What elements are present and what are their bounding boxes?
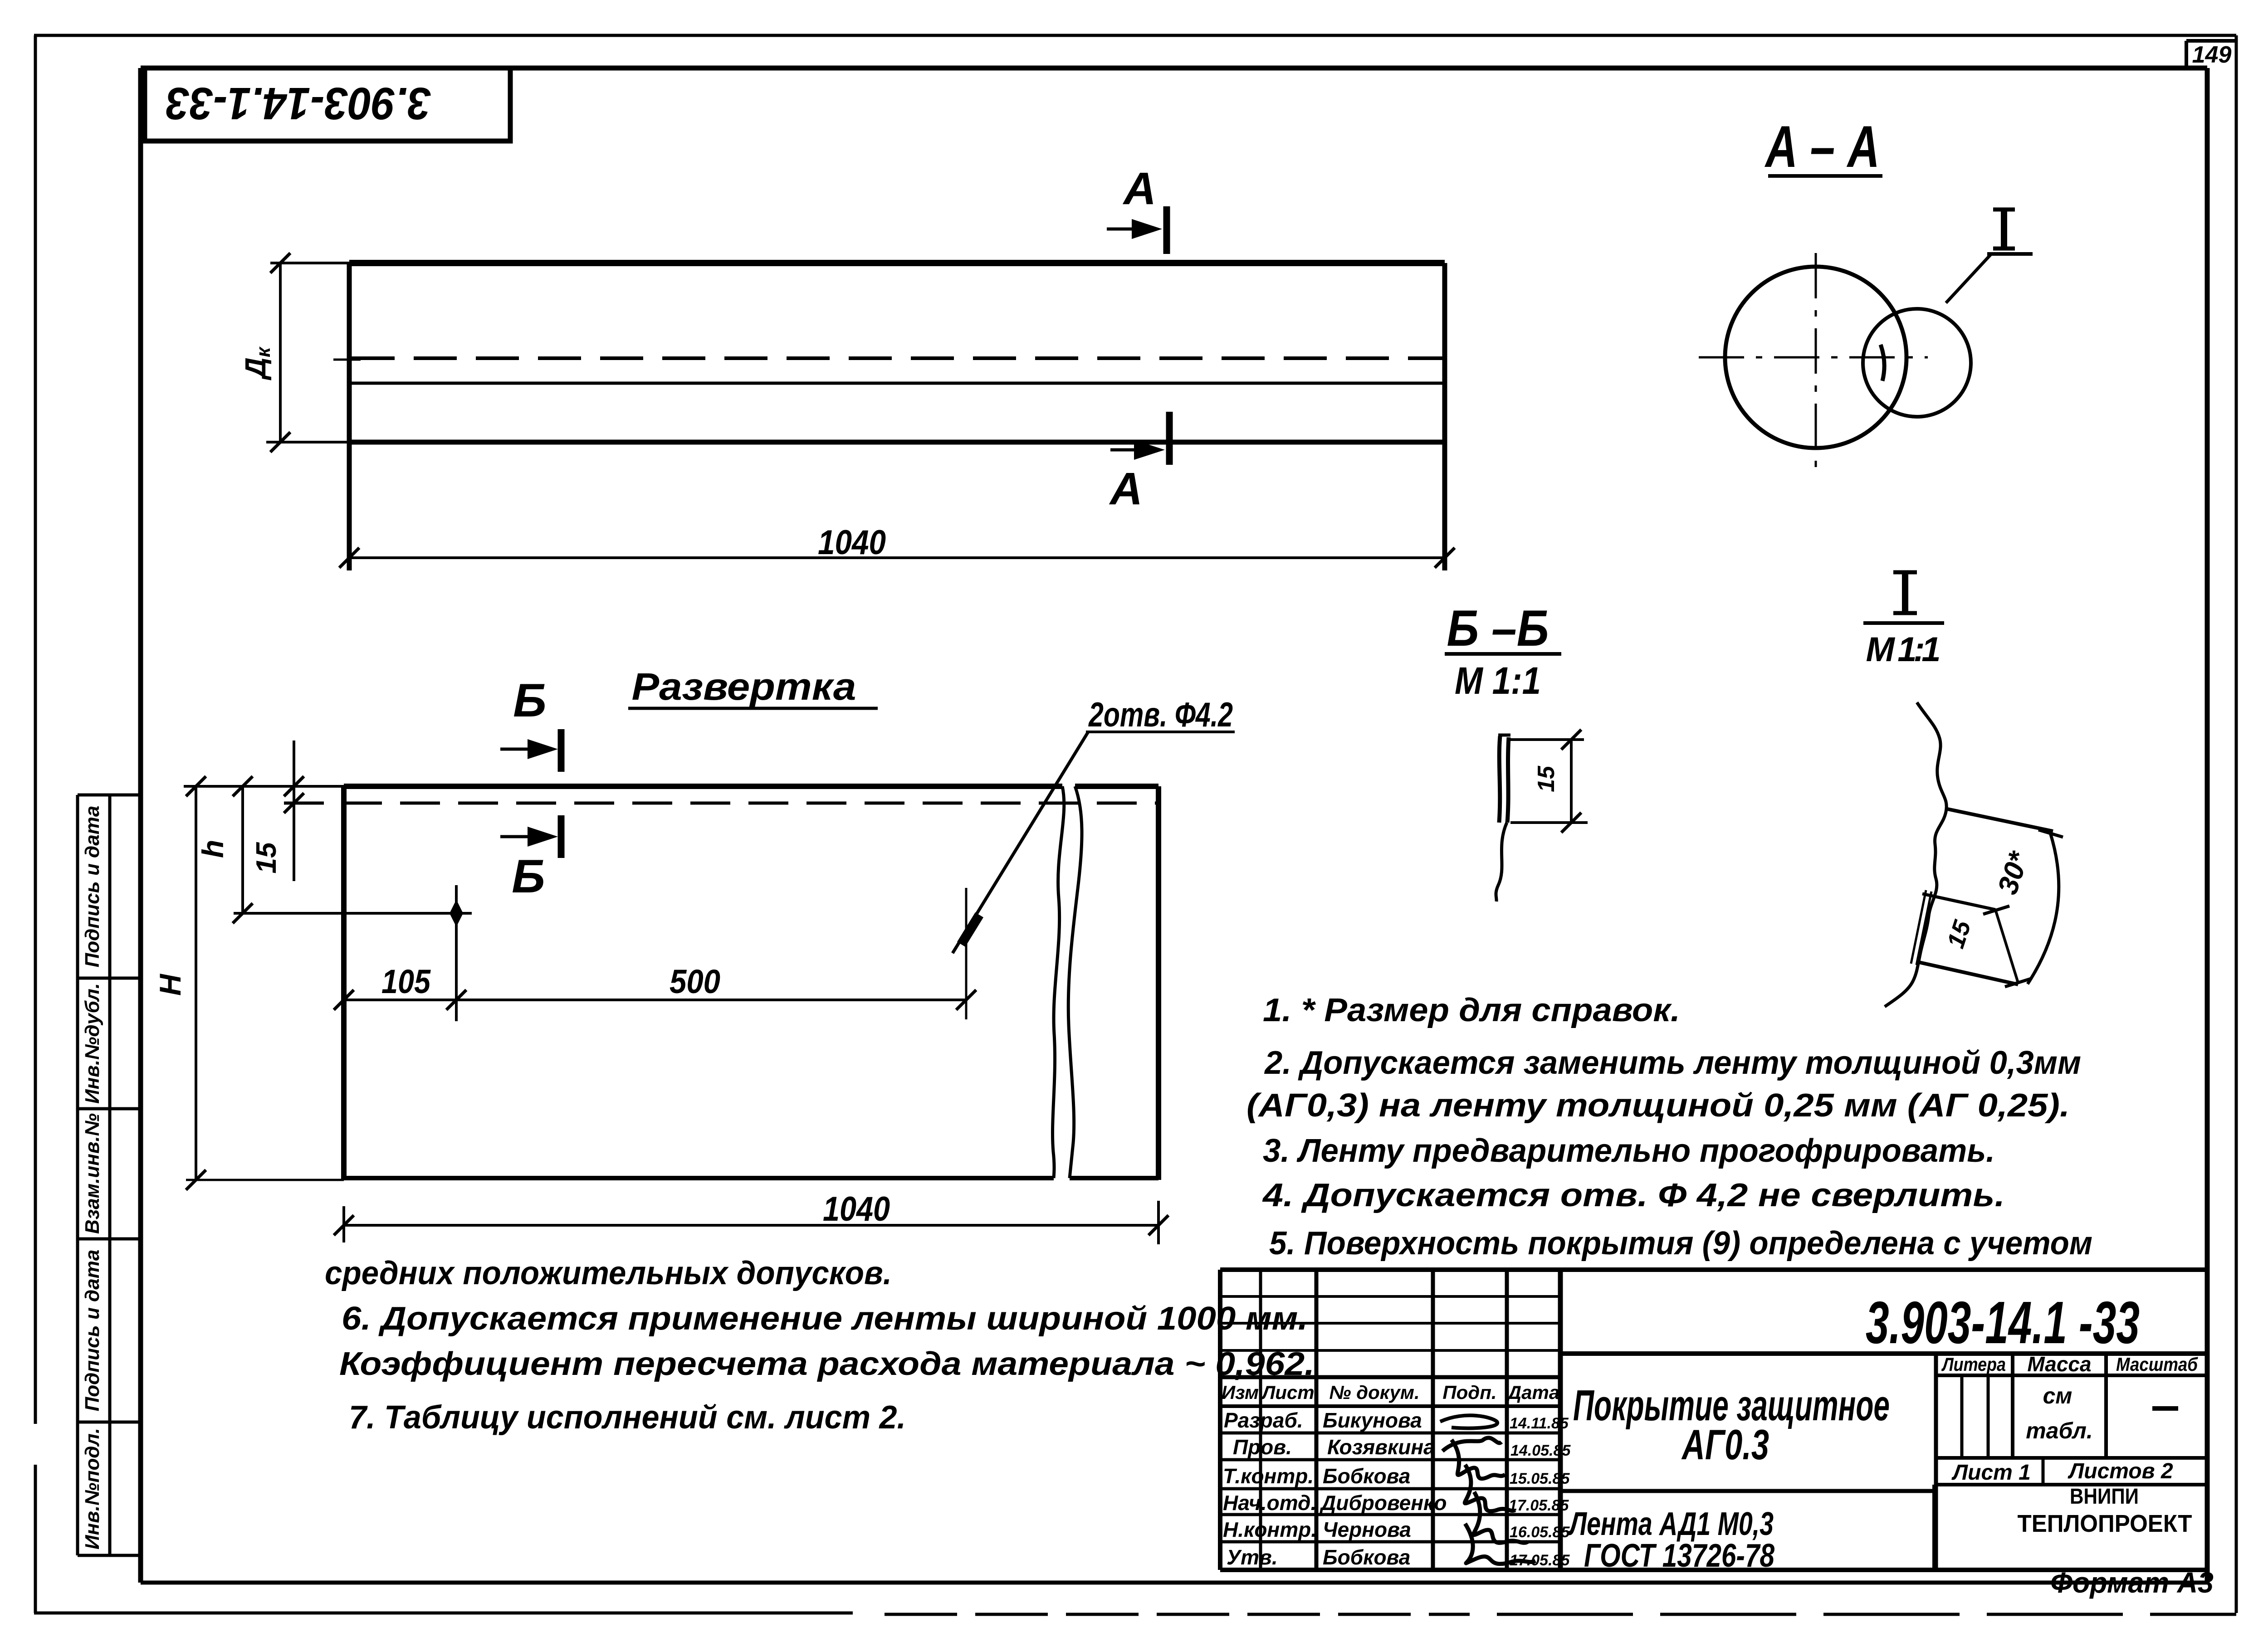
detail I tape top edge [1945,809,2053,831]
razvertka title underline [628,707,878,710]
svg-text:Литера: Литера [1941,1354,2006,1375]
plate thin line [349,382,1445,385]
Litera/Massa/Masshtab header separators [2011,1354,2014,1458]
B-B break tail [1496,823,1507,901]
svg-text:14.05.85: 14.05.85 [1510,1442,1571,1459]
line under designation [1560,1351,2207,1356]
svg-text:АГ0.3: АГ0.3 [1681,1421,1769,1468]
section mark A lower bar [1166,412,1173,465]
svg-text:ТЕПЛОПРОЕКТ: ТЕПЛОПРОЕКТ [2018,1510,2192,1537]
date scribbles [1509,1415,1571,1569]
svg-text:Н.контр.: Н.контр. [1223,1518,1317,1541]
svg-text:Изм: Изм [1222,1382,1259,1403]
svg-text:Лист: Лист [1261,1382,1314,1403]
A-A title underline [1768,174,1882,178]
section mark A upper bar [1163,206,1170,254]
svg-text:4. Допускается отв. Ф 4,2 н: 4. Допускается отв. Ф 4,2 не сверлить. [1262,1177,2005,1213]
section mark A lower arrow [1110,448,1157,452]
Litera header labels [1941,1352,2198,1376]
svg-text:h: h [196,840,230,858]
inner frame right [2205,68,2210,1583]
page number box [2186,41,2236,68]
svg-text:3.903-14.1-33: 3.903-14.1-33 [166,78,431,129]
B-B 15 dim extension top [1510,738,1584,741]
title block vertical 2 [1315,1270,1319,1570]
Litera sub columns [1960,1375,1964,1458]
section mark B upper arrow [500,748,551,751]
2otv underline [1086,731,1235,733]
svg-text:ВНИПИ: ВНИПИ [2070,1485,2139,1509]
svg-text:ГОСТ 13726-78: ГОСТ 13726-78 [1584,1538,1774,1574]
hole 1 vertical extension line [455,885,458,1021]
svg-text:Взам.инв.№: Взам.инв.№ [81,1113,103,1234]
title block signature rows [1220,1432,1560,1435]
svg-text:Масштаб: Масштаб [2116,1354,2198,1375]
outer border top [34,34,2236,37]
list row top line [1936,1456,2207,1460]
name field bottom line [1560,1489,1936,1493]
svg-text:500: 500 [670,963,720,1000]
svg-text:Лист 1: Лист 1 [1951,1461,2031,1485]
B-B 15 dim extension bottom [1510,821,1588,824]
svg-text:1040: 1040 [818,523,886,562]
svg-text:6. Допускается применение ле: 6. Допускается применение ленты шириной … [342,1301,1308,1337]
title block vertical 1 [1259,1270,1262,1570]
1040 dimension line (plate) [349,556,1445,559]
centerline tick left of plate [333,359,361,361]
header labels [1222,1382,1559,1403]
razvertka top edge [344,784,1062,789]
svg-text:Масса: Масса [2027,1352,2091,1376]
plate bottom edge extension for Dk [266,441,349,443]
svg-text:Бобкова: Бобкова [1323,1464,1410,1488]
svg-text:17.05.85: 17.05.85 [1510,1552,1570,1569]
outer border left [34,35,37,1424]
1040 dim tick left [339,548,359,568]
title block vertical 3 [1431,1270,1435,1570]
svg-text:15.05.85: 15.05.85 [1510,1470,1570,1487]
svg-text:А – А: А – А [1765,113,1880,180]
A-A horizontal centerline [1699,356,1928,359]
title block left edge [1218,1270,1222,1570]
svg-text:Б: Б [512,850,545,903]
h dimension line [241,786,244,913]
svg-text:(АГ0,3) на ленту толщиной: (АГ0,3) на ленту толщиной 0,25 мм (АГ 0,… [1246,1087,2070,1124]
detail I fold line [1922,894,1995,910]
inner frame left [138,68,143,1583]
outer border right [2235,35,2238,1613]
Dk tick bottom [270,432,290,452]
svg-text:№ докум.: № докум. [1329,1382,1419,1403]
list row separator [2042,1458,2045,1485]
razvertka top edge extension [184,785,344,788]
svg-text:5. Поверхность покрытия (9): 5. Поверхность покрытия (9) определена с… [1269,1225,2092,1262]
title block outer top [1220,1267,2207,1272]
plate left edge / extension line [347,263,352,570]
title block vertical 5 (main) [1558,1270,1563,1570]
svg-text:2. Допускается заменить лент: 2. Допускается заменить ленту толщиной 0… [1264,1045,2081,1081]
svg-text:2отв. Ф4.2: 2отв. Ф4.2 [1088,696,1233,734]
detail I 15 dim line [1995,910,2018,983]
plate bottom edge [349,440,1445,445]
svg-text:Дата: Дата [1506,1382,1559,1403]
svg-text:Т.контр.: Т.контр. [1223,1464,1314,1488]
svg-text:Разраб.: Разраб. [1224,1408,1303,1432]
section mark B lower arrow [500,835,551,838]
inner frame bottom [141,1581,2207,1585]
inner frame top [141,66,2207,71]
svg-text:3.903-14.1 -33: 3.903-14.1 -33 [1866,1289,2140,1356]
title block reserve rows [1220,1295,1560,1298]
hole 2 arrow marker [957,912,983,947]
signature rows labels [1223,1408,1317,1569]
B-B tape top cap [1498,734,1510,737]
signature rows names [1319,1408,1447,1569]
svg-text:табл.: табл. [2026,1418,2093,1443]
svg-text:Б: Б [513,674,547,727]
razvertka break wavy line left [1052,786,1064,1178]
svg-text:105: 105 [381,963,431,1000]
svg-text:7. Таблицу исполнений см. ли: 7. Таблицу исполнений см. лист 2. [349,1399,906,1436]
svg-text:Нач.отд.: Нач.отд. [1223,1491,1316,1515]
list row bottom line [1936,1483,2207,1486]
header row line [1936,1374,2207,1377]
svg-text:Б –Б: Б –Б [1447,600,1549,657]
org separator vertical [1932,1485,1936,1570]
svg-text:Листов 2: Листов 2 [2068,1459,2173,1483]
hole 2 leader line [953,732,1088,953]
svg-text:см: см [2043,1383,2072,1408]
svg-text:15: 15 [1533,765,1559,792]
A-A small circle (detail I zone) [1863,309,1971,417]
detail I 30* arc dim [2028,833,2059,984]
svg-text:М 1:1: М 1:1 [1866,630,1941,669]
detail I tape thickness lines [1911,890,1926,964]
leader to detail I [1946,254,1991,303]
A-A vertical centerline [1815,253,1817,475]
svg-text:Формат А3: Формат А3 [2050,1566,2214,1599]
B-B 15 dim line [1570,740,1573,823]
left margin column boxes [78,795,141,1555]
B-B tape cross-section right line [1507,737,1509,823]
A-A big circle (rolled tape) [1725,267,1906,448]
svg-text:3. Ленту предварительно прог: 3. Ленту предварительно прогофрировать. [1263,1133,1995,1169]
svg-text:Дибровенко: Дибровенко [1319,1491,1447,1515]
svg-text:Бобкова: Бобкова [1323,1545,1410,1569]
svg-text:14.11.85: 14.11.85 [1510,1415,1569,1432]
Dk tick top [270,253,290,273]
hole 1 marker [450,900,463,927]
105/500 dimension line [344,999,966,1001]
svg-text:17.05.85: 17.05.85 [1509,1497,1569,1514]
title block bottom [1220,1568,2207,1572]
1040 dimension line (razvertka) [344,1224,1158,1227]
svg-text:Бикунова: Бикунова [1323,1408,1422,1432]
title block header row bottom [1220,1404,1560,1408]
plate top edge extension for Dk [270,262,349,264]
section mark A upper arrow [1107,228,1154,231]
Dk dimension line [279,263,282,442]
svg-text:М 1:1: М 1:1 [1455,659,1541,702]
signature scribbles [1440,1415,1497,1428]
hole 2 vertical extension line [965,888,968,1019]
svg-text:16.05.85: 16.05.85 [1510,1524,1570,1541]
svg-text:Подп.: Подп. [1442,1382,1496,1403]
svg-text:1. * Размер для справок.: 1. * Размер для справок. [1263,992,1680,1028]
svg-text:Коэффициент пересчета расход: Коэффициент пересчета расхода материала … [339,1346,1315,1382]
detail I tape bottom edge [1917,962,2018,984]
svg-text:Н: Н [153,974,187,996]
svg-text:Инв.№дубл.: Инв.№дубл. [81,983,103,1104]
svg-text:149: 149 [2192,42,2232,68]
svg-text:Подпись и дата: Подпись и дата [81,806,103,968]
svg-text:Инв.№подл.: Инв.№подл. [81,1428,103,1549]
svg-text:Пров.: Пров. [1233,1435,1292,1459]
detail I break wavy line [1885,702,1946,1007]
main plate view top edge [349,260,1445,266]
svg-text:Развертка: Развертка [632,665,856,708]
svg-text:Чернова: Чернова [1323,1518,1411,1541]
outer border bottom [34,1612,853,1615]
dash in masshtab [2152,1406,2178,1411]
svg-text:Утв.: Утв. [1227,1545,1278,1569]
svg-text:Подпись и дата: Подпись и дата [81,1250,103,1412]
detail I title symbol [1893,572,1917,613]
section mark B lower bar [558,815,565,858]
1040 dim tick right [1435,548,1455,568]
plate dashed fold line [352,356,1445,360]
plate right edge / extension line [1442,263,1447,570]
razvertka left edge [341,786,347,1180]
svg-text:1040: 1040 [823,1190,890,1228]
svg-text:Лента АД1 М0,3: Лента АД1 М0,3 [1568,1506,1774,1542]
razvertka bottom edge [344,1176,1054,1180]
detail I label at A-A [1987,209,2033,254]
hole 1 horizontal extension line [234,912,472,915]
H dimension line [195,786,197,1180]
svg-text:15: 15 [251,842,282,873]
svg-text:А: А [1122,163,1156,214]
B-B tape cross-section left line [1499,736,1500,823]
top-left designation stamp box [145,68,510,141]
left margin labels [81,806,103,1549]
svg-text:средних положительных допуск: средних положительных допусков. [325,1255,892,1291]
section mark B upper bar [558,729,565,772]
15 dimension (razvertka) line [293,741,295,881]
razvertka right edge [1156,786,1161,1180]
title block vertical 4 [1505,1270,1509,1570]
razvertka dashed bend line [284,802,1156,805]
razvertka bottom edge extension to H [186,1179,344,1181]
razvertka break wavy line right [1068,786,1082,1178]
Litera block left edge [1934,1354,1938,1570]
svg-text:А: А [1109,463,1143,514]
detail I title underline [1863,621,1944,625]
B-B title underline [1445,652,1561,656]
svg-text:Козявкина: Козявкина [1327,1435,1435,1459]
A-A inner end of tape [1881,345,1884,381]
